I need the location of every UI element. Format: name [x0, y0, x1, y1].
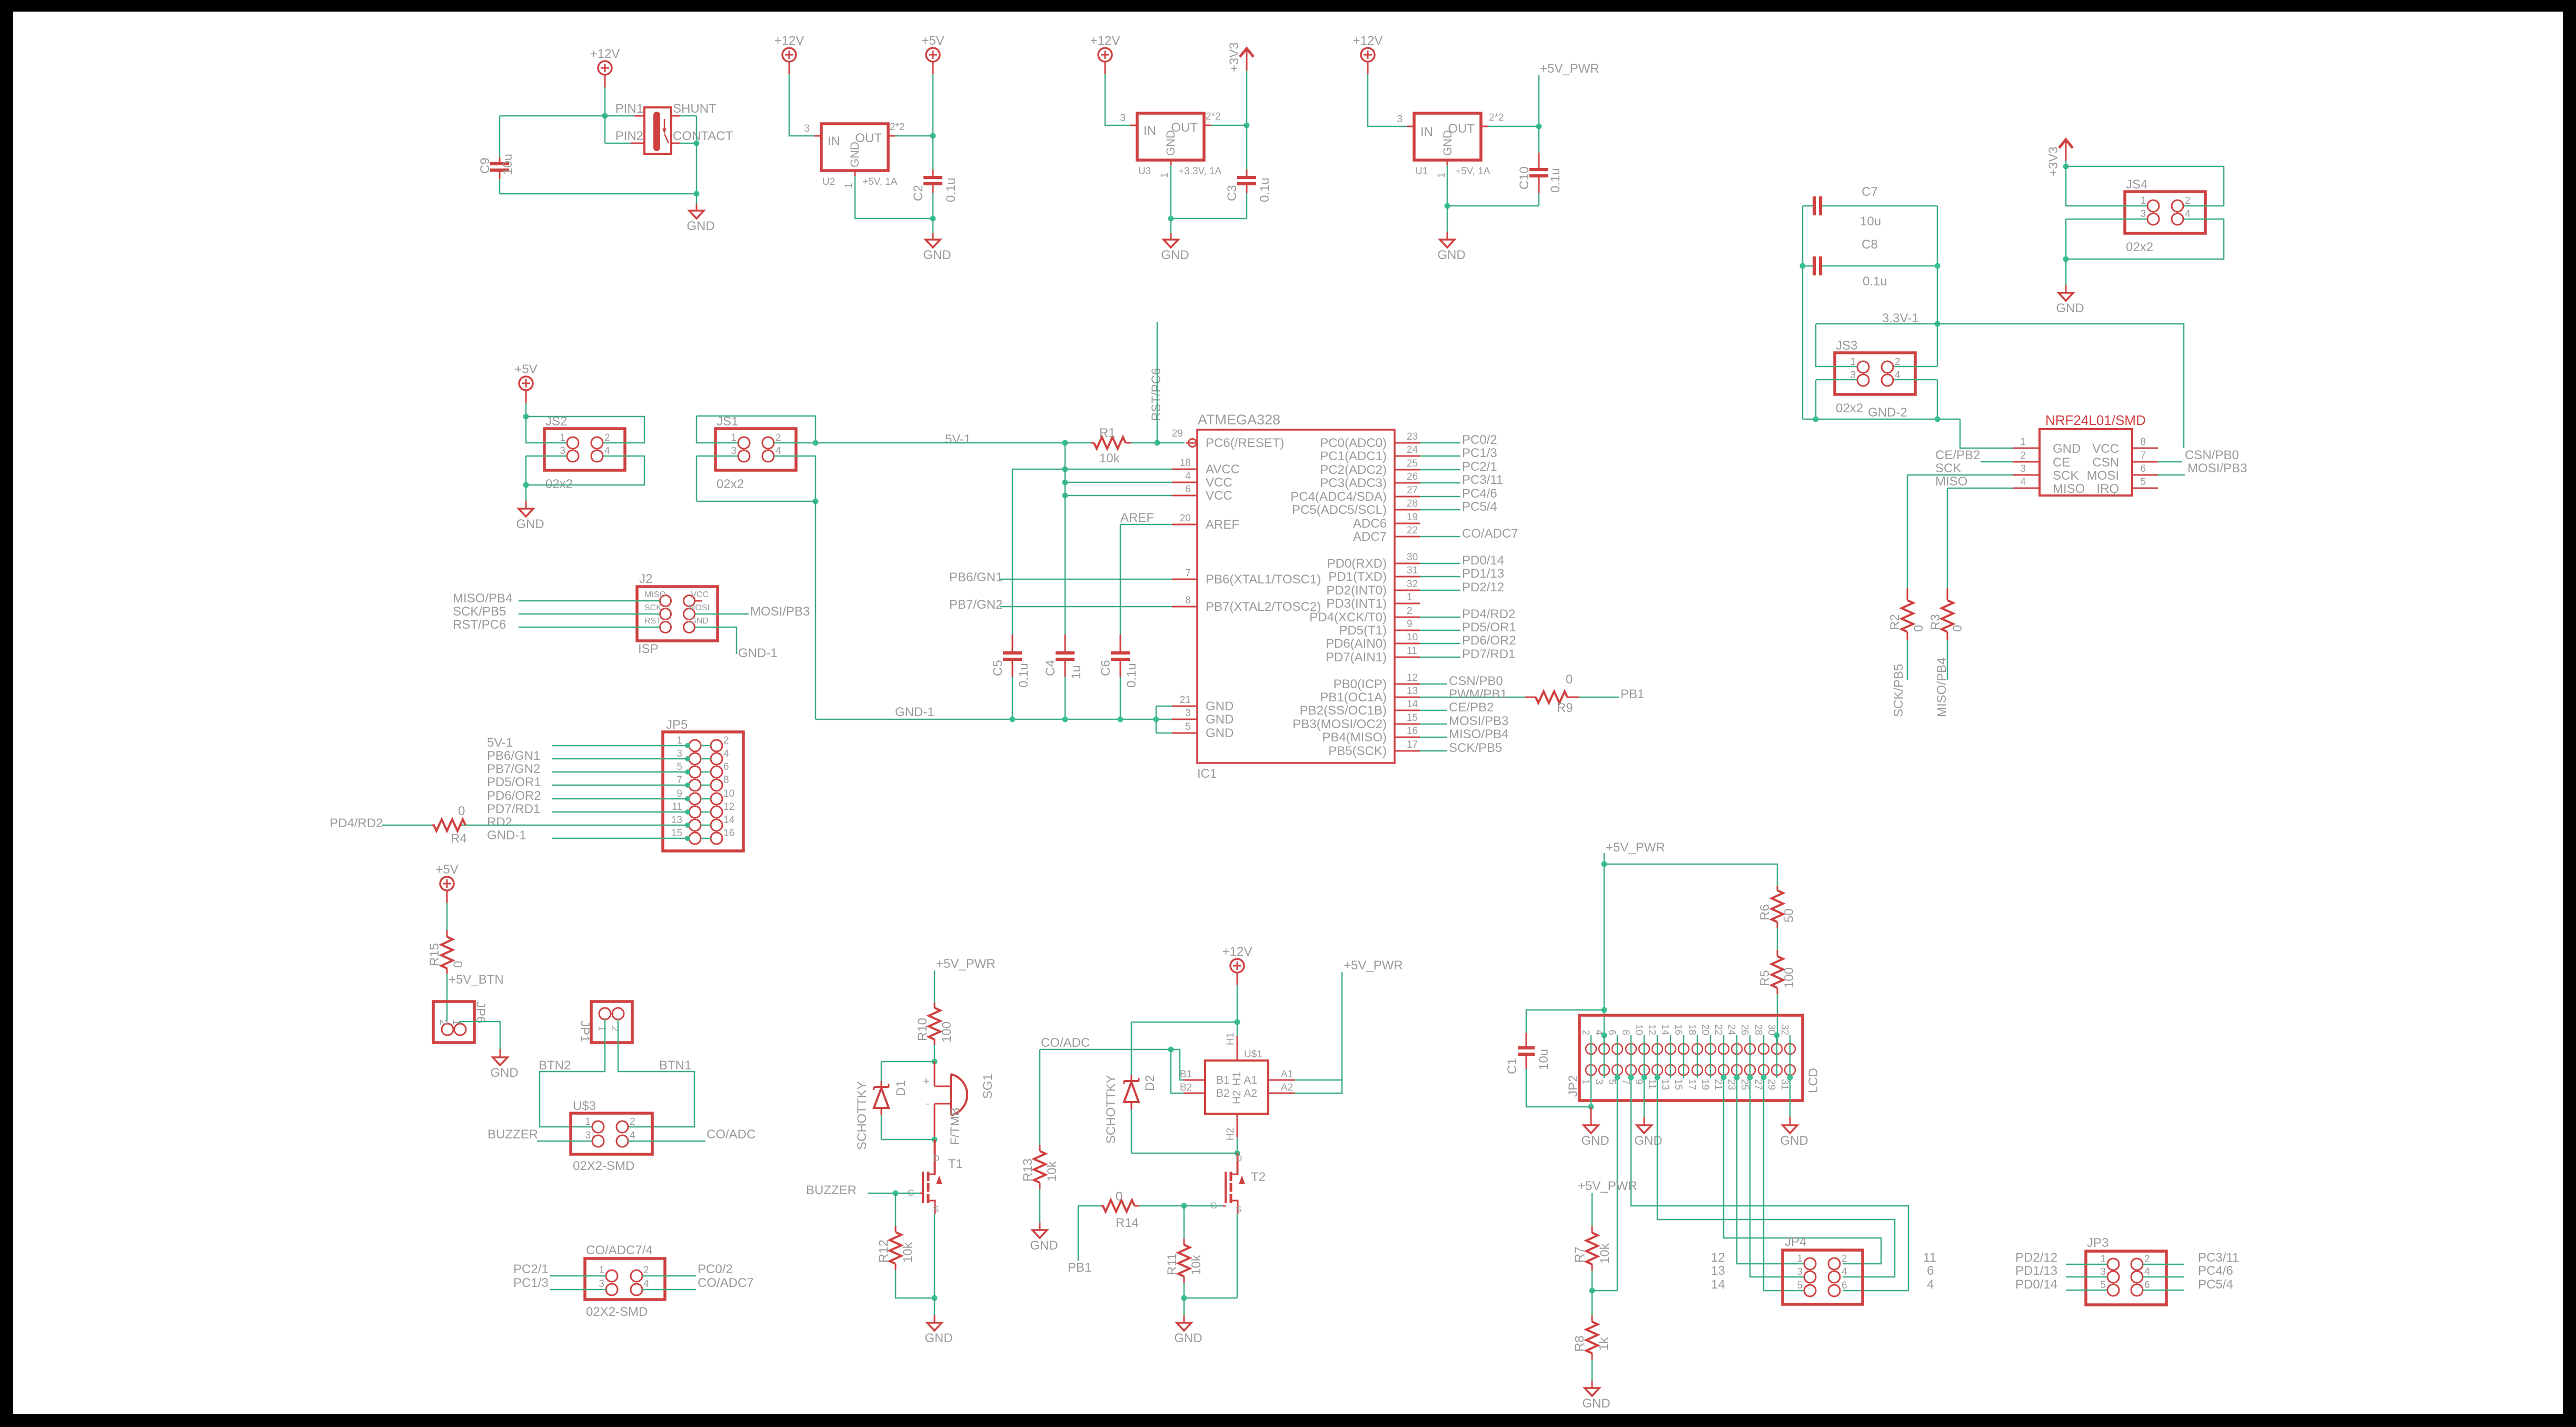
- power symbol +3V3 (JS4): [2059, 140, 2073, 148]
- svg-text:PD0(RXD): PD0(RXD): [1327, 557, 1387, 571]
- svg-text:C5: C5: [991, 660, 1005, 676]
- svg-text:PD7/RD1: PD7/RD1: [487, 802, 540, 816]
- ground GND (JP2 pin9): [1637, 1125, 1652, 1133]
- svg-text:2: 2: [604, 432, 610, 443]
- ground GND (R8): [1592, 1381, 1593, 1388]
- wire: [1736, 1035, 1738, 1078]
- svg-text:18: 18: [1180, 458, 1191, 469]
- header JP5 pin 16 circle: [711, 833, 722, 844]
- capacitor C2: [932, 136, 934, 170]
- node dot JP5 row 1: [685, 743, 690, 748]
- header JP2 pin 30 circle: [1772, 1044, 1782, 1054]
- svg-text:JP2: JP2: [1566, 1075, 1580, 1097]
- header JP2 pin 15 circle: [1678, 1065, 1689, 1075]
- svg-text:+3V3: +3V3: [2046, 146, 2061, 176]
- svg-text:C3: C3: [1225, 185, 1239, 201]
- header JP2 pin 1 circle: [1586, 1065, 1596, 1075]
- node junction CONTACT: [694, 141, 700, 146]
- wire to pin 29: [1157, 442, 1185, 444]
- svg-text:4: 4: [2144, 1266, 2150, 1277]
- svg-text:1: 1: [2020, 437, 2026, 448]
- node dot JP5 row 8: [685, 836, 690, 841]
- svg-text:U$1: U$1: [1244, 1049, 1262, 1060]
- node junction C1 top: [1602, 1007, 1607, 1013]
- wire to C1: [1526, 1010, 1604, 1033]
- svg-text:R13: R13: [1021, 1158, 1035, 1182]
- ground GND (U3): [1170, 219, 1172, 233]
- svg-text:21: 21: [1180, 695, 1191, 706]
- pin 6 (VCC): [1172, 495, 1197, 497]
- capacitor C8: [1803, 265, 1813, 267]
- wire: [1789, 1035, 1791, 1078]
- svg-text:PC4/6: PC4/6: [2198, 1264, 2233, 1278]
- svg-text:D1: D1: [894, 1080, 908, 1096]
- wire JS3 pin1: [1816, 324, 1857, 366]
- svg-text:D: D: [933, 1153, 939, 1163]
- svg-text:AREF: AREF: [1206, 518, 1239, 532]
- header CO/ADC7/4 pin 1 circle: [606, 1270, 618, 1282]
- header JP4 pin 3 circle: [1804, 1271, 1816, 1283]
- header JP2 pin 25 circle: [1745, 1065, 1755, 1075]
- svg-text:PB3(MOSI/OC2): PB3(MOSI/OC2): [1292, 717, 1387, 731]
- header JP5 pin 14 circle: [711, 819, 722, 831]
- node dot JP5 row 6: [685, 809, 690, 815]
- svg-text:MISO/PB4: MISO/PB4: [1935, 658, 1949, 717]
- svg-text:IRQ: IRQ: [2096, 482, 2119, 496]
- header JP2 pin 18 circle: [1692, 1044, 1703, 1054]
- node dot JP5 row 3: [685, 769, 690, 775]
- svg-text:SCK: SCK: [2053, 469, 2078, 483]
- wire 5V-1: [815, 442, 1065, 444]
- svg-text:VCC: VCC: [1206, 489, 1232, 503]
- wire: [895, 135, 933, 137]
- power symbol +3V3 (U3 out): [1240, 48, 1254, 57]
- node junction CO/ADC B1/B2: [1168, 1047, 1174, 1053]
- svg-text:+12V: +12V: [1090, 34, 1120, 48]
- node junction GND-2 right: [1935, 417, 1941, 422]
- header JP5 pin 11 circle: [689, 806, 701, 818]
- wire JP2 pin9 to GND: [1644, 1075, 1645, 1117]
- svg-text:T1: T1: [948, 1157, 963, 1171]
- svg-text:31: 31: [1779, 1079, 1790, 1090]
- svg-text:28: 28: [1753, 1024, 1764, 1035]
- pin 16 (PB4(MISO)): [1395, 737, 1420, 738]
- wire: [1657, 1035, 1658, 1078]
- resistor R7: [1592, 1226, 1593, 1233]
- svg-text:12: 12: [723, 801, 734, 812]
- svg-text:02x2: 02x2: [1836, 401, 1863, 415]
- svg-text:22: 22: [1407, 525, 1418, 536]
- svg-text:2*2: 2*2: [1206, 111, 1221, 122]
- svg-text:0: 0: [1951, 625, 1965, 632]
- svg-text:32: 32: [1407, 579, 1418, 590]
- resistor R1: [1091, 442, 1094, 444]
- node junction U1 GND: [1445, 203, 1450, 209]
- wire between JP5 pins row 2: [701, 758, 711, 760]
- header JP4 pin 1 circle: [1804, 1258, 1816, 1270]
- header JP1 pin 1 circle: [599, 1008, 611, 1019]
- svg-text:PB5(SCK): PB5(SCK): [1328, 744, 1387, 758]
- net label PD0/14 wire: [1420, 563, 1460, 564]
- net label PD5/OR1 wire: [1420, 630, 1460, 631]
- header U$3 (02X2-SMD): [571, 1113, 652, 1154]
- svg-text:3: 3: [2100, 1266, 2106, 1277]
- pin 19 (ADC6): [1395, 523, 1420, 524]
- svg-text:27: 27: [1407, 485, 1418, 496]
- wire: [1710, 1035, 1712, 1078]
- svg-text:PC0(ADC0): PC0(ADC0): [1320, 436, 1387, 450]
- net label MISO/PB4 wire: [1420, 737, 1447, 738]
- svg-text:C9: C9: [478, 157, 492, 174]
- svg-text:B2: B2: [1180, 1082, 1192, 1093]
- wire JS2 pin3: [526, 455, 567, 457]
- svg-text:5: 5: [1185, 721, 1191, 732]
- svg-text:ISP: ISP: [638, 642, 659, 656]
- svg-text:GND: GND: [1161, 248, 1189, 262]
- svg-text:VCC: VCC: [2092, 442, 2119, 456]
- wire: [1211, 125, 1247, 126]
- svg-text:-: -: [926, 1098, 929, 1109]
- node junction U3 OUT: [1244, 123, 1250, 128]
- svg-text:PD7/RD1: PD7/RD1: [1462, 647, 1515, 661]
- svg-text:A1: A1: [1244, 1074, 1257, 1086]
- ground GND (JS2): [525, 485, 527, 501]
- ground GND (R13): [1039, 1223, 1041, 1230]
- wire between JP5 pins row 7: [701, 825, 711, 826]
- wire JS1 pin2: [697, 416, 815, 443]
- svg-text:GND-1: GND-1: [738, 646, 778, 660]
- svg-text:24: 24: [1407, 444, 1418, 455]
- svg-text:0: 0: [1116, 1190, 1122, 1204]
- svg-text:GND: GND: [1780, 1134, 1808, 1148]
- svg-text:H2: H2: [1231, 1090, 1243, 1104]
- net label PD6/OR2 wire: [1420, 643, 1460, 645]
- wire: [1367, 62, 1369, 74]
- svg-text:10k: 10k: [1189, 1254, 1204, 1275]
- header JP3 pin 4 circle: [2131, 1271, 2143, 1283]
- relay K1 PIN2 pin stub: [631, 143, 644, 144]
- svg-text:VCC: VCC: [691, 590, 709, 599]
- svg-text:GND: GND: [1581, 1134, 1609, 1148]
- pin 6 NRF: [2132, 474, 2158, 476]
- svg-text:D: D: [1236, 1153, 1242, 1163]
- header JP5 pin 12 circle: [711, 806, 722, 818]
- svg-text:PB6/GN1: PB6/GN1: [949, 570, 1002, 584]
- svg-text:PB2(SS/OC1B): PB2(SS/OC1B): [1300, 703, 1387, 718]
- svg-text:10u: 10u: [501, 154, 515, 175]
- svg-text:PIN2: PIN2: [615, 129, 643, 143]
- header JP5 pin 7 circle: [689, 779, 701, 791]
- pin 15 (PB3(MOSI/OC2)): [1395, 724, 1420, 725]
- node junction 5V-1/AVCC column: [1062, 440, 1068, 446]
- pin 13 (PB1(OC1A)): [1395, 697, 1420, 698]
- svg-text:PC5/4: PC5/4: [2198, 1277, 2233, 1292]
- svg-text:+: +: [923, 1076, 929, 1087]
- svg-text:PD6/OR2: PD6/OR2: [487, 789, 541, 803]
- svg-text:15: 15: [1407, 712, 1418, 724]
- svg-text:20: 20: [1699, 1024, 1710, 1035]
- svg-text:10k: 10k: [1598, 1243, 1612, 1264]
- svg-text:PC1(ADC1): PC1(ADC1): [1320, 449, 1387, 463]
- svg-text:0: 0: [1912, 625, 1926, 632]
- svg-text:2: 2: [775, 432, 781, 443]
- wire: [604, 75, 606, 87]
- pin 5 NRF: [2132, 488, 2158, 489]
- wire: [525, 390, 527, 403]
- wire: [1697, 1035, 1698, 1078]
- header JS4: [2125, 192, 2205, 233]
- pin 2 (PD4(XCK/T0)): [1395, 617, 1420, 618]
- svg-text:18: 18: [1686, 1024, 1697, 1035]
- net label PC4/6 wire: [1420, 496, 1460, 498]
- svg-text:+12V: +12V: [1353, 34, 1383, 48]
- svg-text:H1: H1: [1225, 1033, 1236, 1045]
- header JP2 pin 32 circle: [1785, 1044, 1795, 1054]
- svg-text:15: 15: [671, 828, 682, 839]
- svg-text:+12V: +12V: [774, 34, 804, 48]
- svg-text:MISO: MISO: [2053, 482, 2085, 496]
- svg-text:GND: GND: [924, 1331, 952, 1345]
- svg-text:7: 7: [2140, 450, 2146, 461]
- node junction 5V-1 JS1: [813, 440, 819, 446]
- svg-text:PD3(INT1): PD3(INT1): [1326, 597, 1387, 611]
- svg-text:+5V_PWR: +5V_PWR: [936, 957, 996, 971]
- svg-text:PD1(TXD): PD1(TXD): [1328, 570, 1387, 584]
- pin 27 (PC4(ADC4/SDA)): [1395, 496, 1420, 498]
- svg-text:PD5/OR1: PD5/OR1: [1462, 620, 1516, 635]
- node junction T1 source GND: [932, 1295, 938, 1301]
- header JP2 pin 4 circle: [1599, 1044, 1609, 1054]
- svg-text:BUZZER: BUZZER: [806, 1183, 857, 1197]
- pin 4 NRF: [2013, 488, 2040, 489]
- header JP6 pin 1 circle: [454, 1024, 466, 1035]
- pin H2 (US1): [1237, 1114, 1238, 1137]
- header JP2 pin 22 circle: [1718, 1044, 1729, 1054]
- svg-text:5: 5: [2100, 1280, 2106, 1291]
- resistor R8: [1592, 1291, 1593, 1315]
- header JP6 pin 2 circle: [442, 1024, 453, 1035]
- wire: [1065, 442, 1091, 444]
- svg-text:100: 100: [940, 1022, 954, 1043]
- resistor R10: [934, 1003, 936, 1008]
- header JP3 pin 5 circle: [2107, 1284, 2119, 1296]
- svg-text:MISO/PB4: MISO/PB4: [453, 591, 512, 606]
- svg-text:2*2: 2*2: [1489, 112, 1504, 123]
- svg-text:3: 3: [560, 445, 565, 457]
- wire JP2 pin1 to GND/C1: [1590, 1075, 1592, 1107]
- svg-text:R6: R6: [1758, 904, 1772, 920]
- net label CSN/PB0 (NRF): [2158, 461, 2182, 463]
- svg-text:6: 6: [2140, 463, 2146, 474]
- svg-text:JP4: JP4: [1785, 1235, 1806, 1249]
- header JP2 pin 14 circle: [1665, 1044, 1676, 1054]
- svg-text:PC1/3: PC1/3: [1462, 446, 1497, 460]
- svg-text:12: 12: [1407, 672, 1418, 683]
- svg-text:PD0/14: PD0/14: [2015, 1277, 2057, 1292]
- svg-text:7: 7: [1185, 568, 1191, 579]
- node dot JP2 pin9: [1642, 1075, 1647, 1081]
- wire JS4 pin2: [2066, 166, 2224, 206]
- node dot JP2 pin31: [1787, 1075, 1793, 1081]
- svg-text:S: S: [933, 1204, 939, 1214]
- header JS1: [715, 429, 796, 470]
- svg-text:4: 4: [775, 445, 781, 457]
- svg-text:1: 1: [1436, 172, 1447, 178]
- svg-text:GND: GND: [1206, 699, 1234, 713]
- svg-text:GND: GND: [1441, 130, 1454, 156]
- svg-text:VCC: VCC: [1206, 475, 1232, 490]
- power symbol +12V (U1): [1361, 48, 1375, 62]
- header U$3 pin 1 circle: [592, 1121, 604, 1133]
- svg-text:17: 17: [1407, 739, 1418, 750]
- svg-text:2: 2: [643, 1265, 649, 1276]
- wire JS2 pin4: [526, 456, 644, 485]
- wire: [2065, 154, 2067, 161]
- net label PC1/3 wire: [1420, 455, 1460, 457]
- svg-text:3: 3: [2140, 209, 2146, 220]
- svg-text:PC2/1: PC2/1: [1462, 460, 1497, 474]
- node junction U3 GND: [1168, 216, 1174, 222]
- svg-text:1: 1: [2100, 1254, 2106, 1265]
- pin 18 (AVCC): [1172, 469, 1197, 470]
- svg-text:3: 3: [731, 445, 737, 457]
- svg-text:PC5(ADC5/SCL): PC5(ADC5/SCL): [1292, 503, 1387, 517]
- svg-text:3: 3: [599, 1279, 604, 1290]
- header JP2 pin 26 circle: [1745, 1044, 1755, 1054]
- resistor R12: [895, 1193, 897, 1226]
- svg-text:BUZZER: BUZZER: [488, 1127, 538, 1142]
- wire: [697, 501, 815, 502]
- svg-text:PD5/OR1: PD5/OR1: [487, 775, 541, 789]
- power symbol +12V (relay): [598, 61, 612, 75]
- header JP2 pin 21 circle: [1718, 1065, 1729, 1075]
- header JP5 pin 4 circle: [711, 753, 722, 765]
- pin 2 NRF: [2013, 461, 2040, 463]
- svg-text:1: 1: [1797, 1253, 1803, 1264]
- svg-text:14: 14: [1659, 1024, 1670, 1036]
- wire JP2 pin21 to JP4 pin2: [1724, 1075, 1881, 1264]
- node junction C9/GND: [694, 191, 700, 197]
- diode D2 SCHOTTKY: [1131, 1022, 1132, 1075]
- svg-text:A1: A1: [1281, 1069, 1293, 1080]
- node junction C8 right: [1935, 263, 1941, 269]
- svg-text:6: 6: [1842, 1280, 1847, 1291]
- svg-text:+3.3V, 1A: +3.3V, 1A: [1178, 166, 1222, 177]
- wire: [1538, 75, 1540, 126]
- header JP1: [591, 1002, 632, 1043]
- svg-text:SCK: SCK: [1935, 461, 1961, 475]
- pin 22 (ADC7): [1395, 536, 1420, 538]
- voltage regulator U2 (7805): [814, 135, 821, 137]
- node junction gate/R11: [1181, 1203, 1187, 1209]
- node junction 3.3V-1: [1935, 321, 1941, 327]
- svg-text:13: 13: [1407, 686, 1418, 697]
- svg-text:1: 1: [1407, 592, 1413, 603]
- pin 17 (PB5(SCK)): [1395, 750, 1420, 752]
- svg-text:JS4: JS4: [2126, 177, 2147, 192]
- svg-text:3: 3: [1593, 1079, 1604, 1085]
- svg-text:JP1: JP1: [578, 1020, 592, 1042]
- transistor T1 (n-MOSFET): [934, 1139, 936, 1174]
- svg-text:MOSI/PB3: MOSI/PB3: [2187, 461, 2247, 475]
- pin 28 (PC5(ADC5/SCL)): [1395, 509, 1420, 511]
- svg-text:3: 3: [585, 1130, 591, 1141]
- svg-text:31: 31: [1407, 565, 1418, 576]
- wire JP2 pin5 to R7 junction: [1617, 1075, 1618, 1291]
- net label CE/PB2 wire: [1420, 710, 1447, 711]
- pin stub VCC (J2): [695, 600, 702, 602]
- wire VCC column to C4: [1065, 443, 1066, 635]
- svg-text:U1: U1: [1415, 166, 1428, 177]
- net label PC0/2 wire: [1420, 442, 1460, 444]
- header JP4 pin 6 circle: [1828, 1285, 1840, 1296]
- svg-text:PWM/PB1: PWM/PB1: [1449, 687, 1507, 701]
- svg-text:4: 4: [723, 748, 729, 759]
- svg-text:PC1/3: PC1/3: [513, 1276, 549, 1290]
- net label PC3/11 wire: [1420, 482, 1460, 484]
- svg-text:GND: GND: [923, 248, 951, 262]
- header JP2 pin 19 circle: [1705, 1065, 1716, 1075]
- transistor T2 (n-MOSFET): [1237, 1153, 1238, 1174]
- header JP4: [1783, 1250, 1863, 1304]
- svg-text:CE/PB2: CE/PB2: [1935, 448, 1980, 462]
- node junction R10/D1/SG1: [932, 1059, 938, 1065]
- power symbol +5V (U2 out): [926, 48, 940, 62]
- svg-text:4: 4: [2020, 477, 2026, 488]
- svg-text:+5V_PWR: +5V_PWR: [1578, 1179, 1637, 1193]
- node junction BUZZER/R12: [893, 1191, 899, 1196]
- pin 24 (PC1(ADC1)): [1395, 455, 1420, 457]
- svg-text:LCD: LCD: [1806, 1068, 1821, 1093]
- svg-text:PD6/OR2: PD6/OR2: [1462, 633, 1516, 648]
- svg-text:10u: 10u: [1860, 214, 1881, 229]
- svg-text:0: 0: [458, 804, 465, 818]
- svg-text:2: 2: [2144, 1254, 2150, 1265]
- svg-text:22: 22: [1713, 1024, 1724, 1035]
- wire: [1763, 1035, 1765, 1078]
- svg-text:PIN1: PIN1: [615, 102, 643, 116]
- header JP5 pin 8 circle: [711, 779, 722, 791]
- header JP3 pin 1 circle: [2107, 1258, 2119, 1270]
- svg-text:CO/ADC: CO/ADC: [707, 1127, 755, 1142]
- svg-text:0.1u: 0.1u: [944, 177, 958, 202]
- wire to R6: [1604, 864, 1777, 886]
- svg-text:A2: A2: [1281, 1082, 1293, 1093]
- header JP5 pin 15 circle: [689, 833, 701, 844]
- svg-text:R9: R9: [1557, 701, 1573, 715]
- svg-text:RST/PC6: RST/PC6: [453, 618, 506, 632]
- pin 4 (VCC): [1172, 482, 1197, 483]
- resistor R15: [446, 930, 448, 937]
- capacitor C7: [1803, 205, 1813, 207]
- net label MOSI/PB3 (NRF): [2158, 474, 2185, 476]
- wire GND-2 row: [1803, 419, 1960, 420]
- header JP3 pin 3 circle: [2107, 1271, 2119, 1283]
- svg-text:PB7/GN2: PB7/GN2: [949, 598, 1002, 612]
- wire: [1171, 218, 1247, 220]
- svg-text:32: 32: [1779, 1024, 1790, 1035]
- header JP6: [433, 1002, 474, 1043]
- svg-text:3: 3: [1397, 114, 1403, 125]
- svg-text:8: 8: [1185, 595, 1191, 606]
- wire JS4 pin4: [2066, 219, 2224, 259]
- header JP1 pin 2 circle: [612, 1008, 624, 1019]
- svg-text:AREF: AREF: [1120, 511, 1154, 525]
- svg-text:GND: GND: [1634, 1134, 1662, 1148]
- wire: [500, 193, 697, 195]
- svg-text:R12: R12: [877, 1240, 891, 1263]
- node junction +12V/PIN1: [602, 113, 608, 119]
